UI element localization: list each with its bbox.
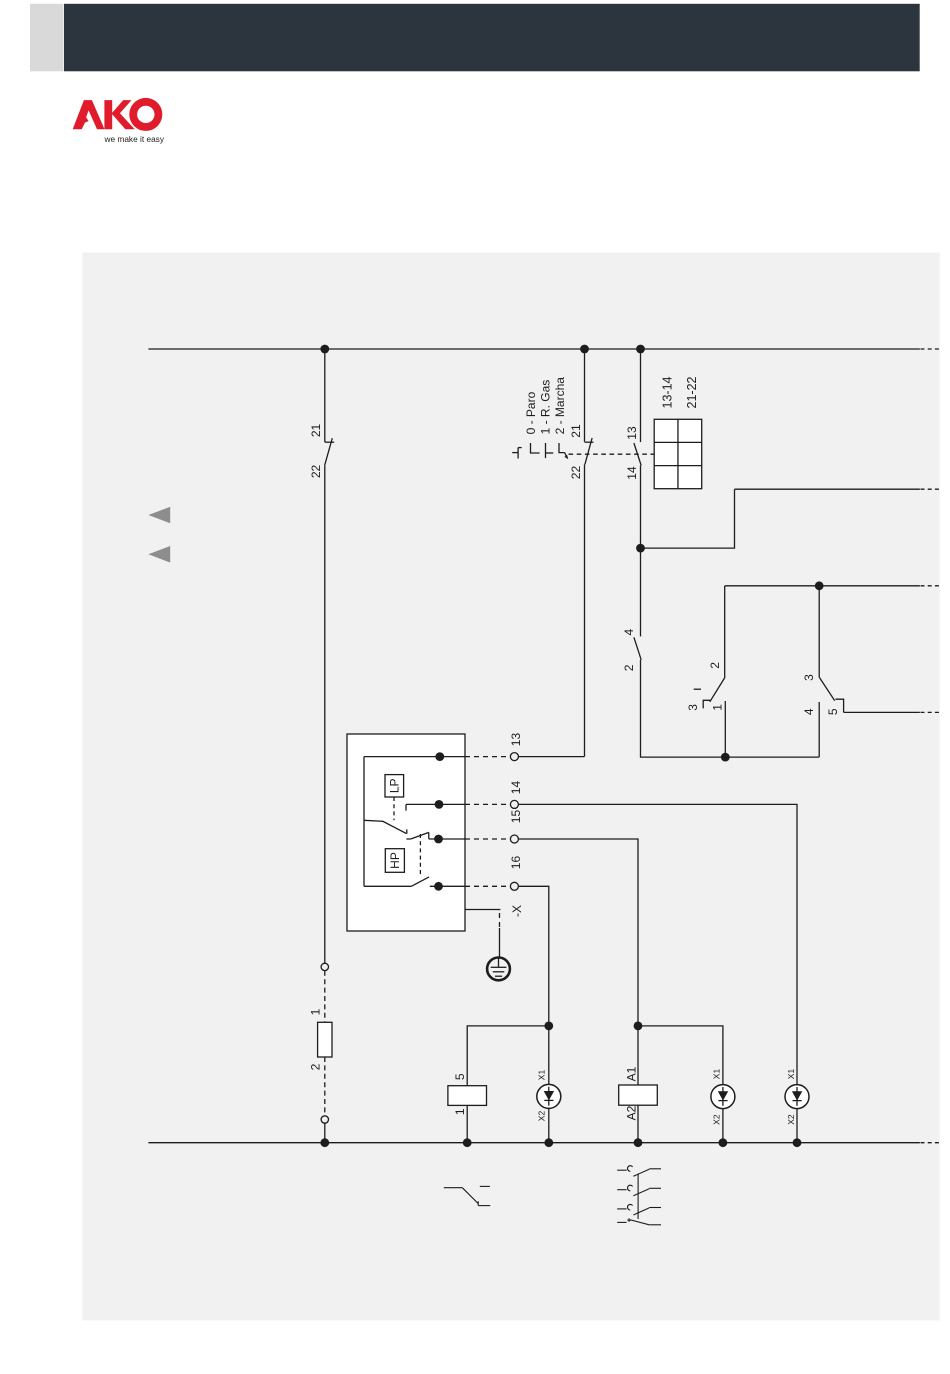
- svg-text:21-22: 21-22: [685, 376, 699, 408]
- svg-text:1: 1: [308, 1008, 322, 1015]
- relay mirror changeover contact: [444, 1186, 491, 1205]
- terminal circle upper fuse: [321, 963, 328, 970]
- schematic panel background: [82, 253, 939, 1321]
- svg-text:13-14: 13-14: [661, 376, 675, 408]
- wire top supply rail L: [148, 348, 939, 350]
- svg-text:-X: -X: [510, 905, 524, 917]
- wire contact 4-2 down to bus: [641, 660, 820, 757]
- contactor mirror contact row 3: [617, 1204, 661, 1215]
- svg-text:A2: A2: [625, 1105, 639, 1120]
- wire left branch to fuse: [324, 465, 326, 963]
- wire dashed box to terminal 13: [465, 756, 510, 758]
- contact table grid: [654, 419, 702, 488]
- svg-text:15: 15: [509, 810, 523, 824]
- earth branch solid: [499, 928, 501, 957]
- LP fixed contact 14: [405, 804, 407, 810]
- svg-text:3: 3: [686, 704, 700, 711]
- terminal circle 13: [510, 753, 518, 761]
- wire node to table output line: [641, 489, 735, 548]
- wire dashed above fuse: [324, 971, 326, 1022]
- svg-text:5: 5: [826, 708, 840, 715]
- wire relay branch: [467, 1026, 549, 1086]
- pressostat internal wire 16: [430, 885, 465, 887]
- header dark bar: [64, 4, 920, 72]
- svg-text:14: 14: [625, 466, 639, 480]
- wire dashed box to terminal 16: [465, 885, 510, 887]
- wire 13-14 branch to contact 4-2: [640, 548, 642, 636]
- wire contactor to bottom rail: [637, 1105, 639, 1143]
- svg-text:X1: X1: [786, 1069, 796, 1080]
- pressostat internal wire 15: [429, 838, 465, 840]
- node junction relay branch: [544, 1022, 553, 1031]
- terminal circle 15: [510, 835, 518, 843]
- relay coil K5: [448, 1086, 487, 1106]
- svg-text:0 - Paro: 0 - Paro: [524, 391, 538, 434]
- wire left leg thermostat branch: [724, 586, 726, 677]
- node bottom rail relay: [463, 1138, 472, 1147]
- contact NC 21-22 left: [325, 438, 335, 465]
- node rail junction left: [320, 345, 329, 354]
- node junction lamp H2 branch: [634, 1022, 643, 1031]
- svg-text:1 - R. Gas: 1 - R. Gas: [539, 380, 553, 435]
- contactor mirror mechanical link: [637, 1174, 639, 1219]
- contactor mirror contact row 2: [617, 1185, 661, 1196]
- wire selector branch to terminal 13: [584, 464, 586, 756]
- svg-text:LP: LP: [388, 778, 402, 793]
- wire dashed below fuse: [324, 1057, 326, 1116]
- wire output line 3 to right: [725, 585, 940, 587]
- wire terminal 16 to lamp H1: [518, 886, 548, 1084]
- wire changeover 1 down to bus: [724, 701, 726, 757]
- mechanical link dashed selector: [569, 453, 654, 455]
- node junction x725 y757: [721, 753, 730, 762]
- wire left branch upper: [324, 349, 326, 442]
- wire dashed box to terminal 14: [465, 803, 510, 805]
- selector handle symbol: [512, 448, 522, 459]
- contactor mirror contact row 1: [617, 1166, 661, 1177]
- wire contactor coil feed: [637, 1026, 639, 1085]
- svg-text:2: 2: [308, 1063, 322, 1070]
- svg-text:4: 4: [622, 628, 636, 635]
- node bottom rail lamp H3: [793, 1138, 802, 1147]
- svg-text:3: 3: [802, 674, 816, 681]
- svg-text:X1: X1: [537, 1070, 547, 1081]
- pressostat internal wire 14: [406, 803, 465, 805]
- node bottom rail lamp H2: [719, 1138, 728, 1147]
- selector cam position 2 with arrow: [559, 443, 568, 459]
- svg-text:22: 22: [309, 465, 323, 479]
- svg-text:4: 4: [802, 708, 816, 715]
- svg-text:1: 1: [453, 1108, 467, 1115]
- svg-text:14: 14: [509, 781, 523, 795]
- lamp H1: [537, 1084, 561, 1108]
- node internal terminal 16: [434, 882, 443, 891]
- node bottom rail contactor: [634, 1138, 643, 1147]
- svg-text:X1: X1: [712, 1069, 722, 1080]
- earth branch dashed: [499, 913, 501, 928]
- node junction x819 y586: [815, 581, 824, 590]
- wire 13-14 lower to node: [640, 466, 642, 549]
- contact NO 13-14: [634, 443, 641, 466]
- node bottom rail lamp H1: [544, 1138, 553, 1147]
- svg-text:2: 2: [622, 664, 636, 671]
- contactor mirror aux NC contact row 4: [617, 1218, 661, 1225]
- fuse F1 body: [318, 1022, 332, 1057]
- selector cam position 0: [531, 443, 540, 453]
- svg-text:X2: X2: [537, 1111, 547, 1122]
- svg-text:X2: X2: [712, 1114, 722, 1125]
- svg-text:1: 1: [710, 704, 724, 711]
- pressostat internal left vertical: [363, 757, 365, 887]
- pressostat internal common wire 13: [364, 756, 465, 758]
- contact 1-2-3 NO dash terminal 3: [694, 688, 701, 690]
- node internal terminal 13: [435, 752, 444, 761]
- selector cam position 1: [546, 443, 554, 458]
- contact 1-2-3 NC seat: [703, 700, 711, 708]
- svg-text:2: 2: [708, 662, 722, 669]
- wire fuse to bottom rail: [324, 1123, 326, 1143]
- wire relay to bottom rail: [466, 1105, 468, 1142]
- terminal circle 16: [510, 882, 518, 890]
- terminal circle 14: [510, 800, 518, 808]
- svg-text:A1: A1: [625, 1066, 639, 1081]
- node rail junction selector branch: [580, 345, 589, 354]
- protective earth symbol: [487, 958, 510, 981]
- wire terminal 15 to contactor: [518, 839, 638, 1026]
- pressostat B1 box: [347, 734, 465, 931]
- contact changeover 1-2-3 blade: [710, 677, 725, 702]
- svg-text:2 - Marcha: 2 - Marcha: [553, 377, 567, 435]
- node internal terminal 15: [434, 835, 443, 844]
- AKO logo letter K: [104, 100, 134, 129]
- AKO logo letter A: [73, 100, 105, 129]
- node rail junction contact 13-14 branch: [636, 345, 645, 354]
- LP switch common blade: [364, 820, 407, 834]
- node junction x640 y548: [636, 544, 645, 553]
- HP mechanical link dashed: [419, 834, 421, 877]
- contact 15 seat and blade: [406, 832, 428, 839]
- LP mechanical link dashed: [393, 797, 395, 820]
- contactor coil KM1: [619, 1085, 658, 1105]
- wire selector branch upper: [584, 349, 586, 442]
- node internal terminal 14: [435, 800, 444, 809]
- svg-text:13: 13: [509, 733, 523, 747]
- terminal circle lower fuse: [321, 1116, 328, 1123]
- wire right leg thermostat branch: [818, 586, 820, 677]
- LP label box: [385, 775, 404, 797]
- svg-text:22: 22: [569, 466, 583, 480]
- contact NO 4-2: [634, 637, 641, 660]
- svg-text:X2: X2: [786, 1114, 796, 1125]
- wire output line 4 to right: [844, 711, 940, 713]
- lamp H2: [711, 1085, 735, 1109]
- svg-text:5: 5: [453, 1073, 467, 1080]
- lamp H3: [785, 1085, 809, 1109]
- node bottom rail at fuse branch: [320, 1138, 329, 1147]
- svg-text:21: 21: [309, 424, 323, 438]
- svg-text:HP: HP: [388, 852, 402, 869]
- marker triangle 2: [148, 546, 170, 563]
- marker triangle 1: [148, 507, 170, 523]
- wire bottom supply rail N: [148, 1142, 939, 1144]
- wire lamp H2 branch: [638, 1026, 723, 1085]
- AKO logo letter O: [129, 98, 162, 131]
- wire terminal 13 to selector branch: [518, 756, 584, 758]
- wire terminal 14 to lamp H3: [518, 804, 797, 1084]
- wire output line 2 to right: [735, 488, 940, 490]
- svg-text:21: 21: [569, 424, 583, 438]
- wire dashed box to terminal 15: [465, 838, 510, 840]
- wire lamp H1 to bottom rail: [548, 1108, 550, 1142]
- earth branch wire: [465, 909, 500, 911]
- wire 13-14 branch upper: [640, 349, 642, 442]
- svg-text:16: 16: [509, 856, 523, 870]
- wire lamp H2 to bottom rail: [722, 1109, 724, 1143]
- header gray tab: [30, 4, 64, 72]
- HP label box: [385, 849, 404, 873]
- contact changeover 3-4-5 blade: [819, 677, 835, 701]
- wire changeover 4 down to bus: [818, 702, 820, 757]
- svg-text:we make it easy: we make it easy: [104, 134, 165, 144]
- svg-text:13: 13: [625, 426, 639, 440]
- wire lamp H3 to bottom rail: [796, 1109, 798, 1143]
- contact 3-4-5 seat 5: [835, 699, 843, 712]
- HP switch bottom common and blade: [364, 877, 429, 886]
- selector switch contact 21-22: [585, 438, 594, 464]
